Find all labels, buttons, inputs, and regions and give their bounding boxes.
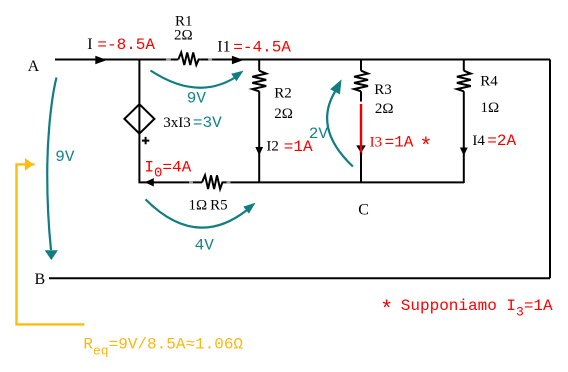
wire right rail	[549, 60, 551, 279]
svg-text:A: A	[28, 58, 40, 75]
wire top rail left segment A to R1	[55, 59, 178, 61]
resistor R2	[252, 71, 266, 92]
wire R2 branch top	[258, 60, 260, 71]
svg-text:=3V: =3V	[193, 114, 222, 132]
gray anchor dash 4	[227, 181, 231, 183]
arrow I3 down	[356, 145, 366, 153]
wire middle rail right of R5	[225, 181, 465, 183]
wire R3 below resistor	[360, 91, 362, 101]
svg-text:Req=9V/8.5A≈1.06Ω: Req=9V/8.5A≈1.06Ω	[83, 336, 243, 359]
bracket Req orange	[17, 164, 85, 324]
svg-text:I0=4A: I0=4A	[144, 158, 191, 181]
svg-text:1Ω R5: 1Ω R5	[189, 198, 228, 214]
arrowhead 2V up	[330, 79, 342, 94]
wire R2 branch bottom	[258, 91, 260, 183]
wire R4 branch top	[463, 60, 465, 71]
svg-text:R2: R2	[274, 85, 292, 101]
voltage arc 2V	[327, 90, 353, 167]
wire left branch through source	[138, 60, 140, 184]
svg-text:9V: 9V	[55, 148, 75, 166]
gray anchor dash 3	[189, 181, 193, 183]
svg-text:2Ω: 2Ω	[174, 28, 193, 44]
arrowhead 4V arc	[243, 203, 255, 214]
svg-text:I2: I2	[266, 139, 279, 155]
resistor R4	[457, 71, 471, 92]
wire middle rail left of R5	[139, 181, 203, 183]
wire R3 branch bottom	[360, 153, 362, 184]
svg-text:*: *	[380, 297, 393, 322]
svg-text:=2A: =2A	[487, 132, 516, 150]
svg-text:I1: I1	[217, 38, 230, 55]
arrowhead 9V left down	[45, 250, 58, 260]
svg-text:I4: I4	[472, 133, 485, 149]
svg-text:B: B	[35, 271, 46, 288]
dependent source U1 diamond	[124, 104, 154, 133]
wire bottom rail	[49, 277, 550, 279]
svg-text:1Ω: 1Ω	[481, 100, 500, 116]
voltage arrow 9V left A to B	[47, 78, 56, 251]
arrowhead Req orange right	[25, 158, 34, 171]
wire top rail right segment	[201, 59, 550, 61]
svg-text:I3: I3	[370, 135, 383, 151]
gray anchor dash 2	[208, 58, 212, 60]
svg-text:2Ω: 2Ω	[375, 101, 394, 117]
svg-text:C: C	[358, 202, 369, 219]
voltage arc 4V under R5	[146, 199, 248, 227]
svg-text:9V: 9V	[187, 89, 207, 107]
voltage arc 9V under R1	[151, 71, 236, 88]
svg-text:R4: R4	[480, 74, 498, 90]
svg-text:R3: R3	[374, 82, 392, 98]
svg-text:I: I	[87, 36, 92, 53]
svg-text:=-4.5A: =-4.5A	[233, 38, 291, 56]
svg-text:2V: 2V	[309, 125, 329, 143]
gray anchor dash 1	[166, 58, 171, 60]
wire R3 branch top	[360, 60, 362, 71]
arrow I2 down	[255, 147, 263, 156]
wire R4 branch bottom	[463, 91, 465, 183]
svg-text:=1A: =1A	[385, 134, 414, 152]
arrow I0 current left	[145, 178, 154, 186]
wire I3 red annotation line	[360, 104, 362, 155]
resistor R5	[202, 175, 225, 189]
resistor R3	[354, 71, 368, 92]
svg-text:3xI3: 3xI3	[163, 115, 191, 131]
arrow I1 current right	[232, 56, 244, 65]
resistor R1	[178, 53, 200, 66]
svg-text:*: *	[419, 135, 432, 160]
arrow I4 down	[460, 148, 468, 156]
arrow I current right	[95, 56, 107, 65]
arrowhead 9V arc	[231, 71, 243, 82]
plus sign	[142, 137, 149, 144]
svg-text:=-8.5A: =-8.5A	[97, 36, 155, 54]
svg-text:Supponiamo I3=1A: Supponiamo I3=1A	[401, 297, 553, 320]
svg-text:4V: 4V	[195, 237, 215, 255]
svg-text:2Ω: 2Ω	[274, 106, 293, 122]
